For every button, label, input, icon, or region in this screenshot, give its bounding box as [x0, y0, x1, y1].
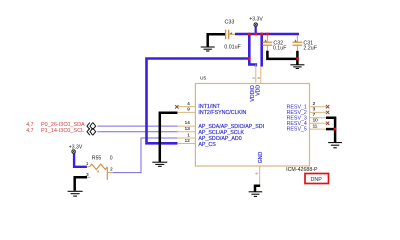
- svg-text:6: 6: [255, 172, 259, 174]
- svg-text:+3.3V: +3.3V: [249, 17, 263, 23]
- junction dot RESV_5: [333, 128, 336, 131]
- pin 6 stub GND: [259, 166, 261, 185]
- wire R55 pin2 to AP_SDO (thin): [112, 138, 177, 173]
- wire RESV_5 join (black): [326, 128, 335, 131]
- pin 12 stub: [177, 143, 195, 145]
- DNP box: [305, 174, 329, 184]
- svg-text:7: 7: [313, 112, 316, 117]
- svg-text:U5: U5: [200, 75, 206, 81]
- svg-text:1: 1: [187, 132, 190, 137]
- ground at INT2: [152, 162, 167, 166]
- svg-text:2.2uF: 2.2uF: [303, 46, 317, 52]
- pin 9 stub: [177, 111, 195, 113]
- svg-text:0: 0: [110, 155, 113, 161]
- pin 2 stub: [310, 106, 327, 108]
- svg-text:5: 5: [252, 77, 256, 79]
- svg-text:AP_SDA/AP_SDIO/AP_SDI: AP_SDA/AP_SDIO/AP_SDI: [198, 124, 264, 130]
- svg-text:12: 12: [185, 138, 191, 143]
- pin 4 stub: [177, 106, 195, 108]
- ground at R55: [68, 191, 83, 196]
- svg-text:R55: R55: [92, 155, 102, 161]
- power +3.3V top: [249, 17, 263, 27]
- capacitor C31: [293, 35, 303, 51]
- wire C33 to ground (black): [208, 34, 225, 47]
- svg-text:0.1uF: 0.1uF: [273, 46, 287, 52]
- wire +3.3V to R55 pin1: [74, 153, 87, 167]
- wire INT2 pin to ground (black): [160, 113, 178, 163]
- svg-text:9: 9: [187, 107, 190, 112]
- pin 1 stub: [177, 137, 195, 139]
- svg-text:INT1/INT: INT1/INT: [198, 104, 220, 110]
- svg-text:P1_14-I3C0_SCL: P1_14-I3C0_SCL: [41, 128, 84, 134]
- pin 8 stub VDD: [260, 67, 262, 84]
- no-connect X pin 3: [326, 111, 329, 114]
- svg-text:10: 10: [313, 118, 319, 123]
- ground at C33: [201, 47, 215, 51]
- wire VDDIO drop: [249, 34, 256, 67]
- pin 7 stub: [310, 117, 327, 119]
- IC U5 box: [195, 84, 309, 167]
- wire C32/C31 to ground (black): [267, 51, 297, 59]
- svg-text:4,7: 4,7: [26, 128, 33, 134]
- ground at C31: [290, 65, 304, 69]
- svg-text:14: 14: [185, 120, 191, 125]
- svg-text:ICM-42688-P: ICM-42688-P: [286, 167, 318, 173]
- svg-text:11: 11: [313, 123, 318, 128]
- svg-text:8: 8: [257, 77, 261, 79]
- pin 5 stub VDDIO: [255, 65, 257, 84]
- wire IC GND pin to ground (black): [255, 186, 260, 192]
- svg-text:VDD: VDD: [255, 85, 261, 96]
- svg-text:+3.3V: +3.3V: [69, 144, 83, 150]
- pin 10 stub: [310, 122, 327, 124]
- no-connect X pin 10: [326, 122, 329, 125]
- ground at IC GND: [249, 192, 263, 197]
- pin 14 stub: [177, 125, 195, 127]
- svg-text:3: 3: [313, 107, 316, 112]
- wire C31 bottom (black): [296, 51, 299, 65]
- svg-text:AP_SCL/AP_SCLK: AP_SCL/AP_SCLK: [198, 130, 244, 136]
- wire +3.3V stem: [255, 27, 257, 35]
- off-page connector SDA: [87, 123, 96, 130]
- wire VDD drop: [260, 34, 263, 67]
- junction dot bus/VDD: [260, 33, 263, 36]
- svg-text:C33: C33: [225, 20, 235, 26]
- wire RESV_3/RESV_5 to ground (black): [326, 118, 335, 142]
- no-connect X pin 2: [326, 105, 329, 108]
- wire R55 pin3 to ground (black): [75, 177, 87, 190]
- svg-text:AP_CS: AP_CS: [198, 142, 216, 148]
- pin 13 stub: [177, 131, 195, 133]
- ground at RESV: [328, 143, 342, 148]
- wire +3.3V bus (thick): [235, 33, 299, 36]
- junction dot bus/VDDIO: [248, 33, 251, 36]
- wire net I3C0_SCL (thin): [97, 131, 177, 133]
- no-connect X pin 4: [175, 105, 178, 108]
- pin 11 stub: [310, 128, 327, 130]
- svg-text:GND: GND: [258, 152, 264, 164]
- capacitor C32: [263, 35, 273, 51]
- wire +3.3V to AP_CS (corner): [147, 59, 250, 144]
- svg-text:13: 13: [185, 126, 191, 131]
- off-page connector SCL: [87, 128, 96, 135]
- svg-text:2: 2: [313, 101, 316, 106]
- svg-text:INT2/FSYNC/CLKIN: INT2/FSYNC/CLKIN: [198, 110, 246, 116]
- svg-text:DNP: DNP: [311, 177, 323, 183]
- capacitor C33: [220, 30, 235, 40]
- resistor R55: [87, 164, 113, 180]
- svg-text:0.01uF: 0.01uF: [224, 45, 241, 51]
- wire net I3C0_SDA (thin): [97, 125, 177, 127]
- junction dot C31 gnd: [296, 57, 299, 60]
- junction dot corner/VDDIO drop: [248, 57, 251, 60]
- junction dot bus/+3.3V: [254, 33, 257, 36]
- junction dot bus/C32: [266, 33, 269, 36]
- svg-text:4: 4: [187, 101, 190, 106]
- pin 3 stub: [310, 111, 327, 113]
- power +3.3V at R55: [69, 144, 83, 153]
- svg-text:RESV_5: RESV_5: [287, 127, 307, 133]
